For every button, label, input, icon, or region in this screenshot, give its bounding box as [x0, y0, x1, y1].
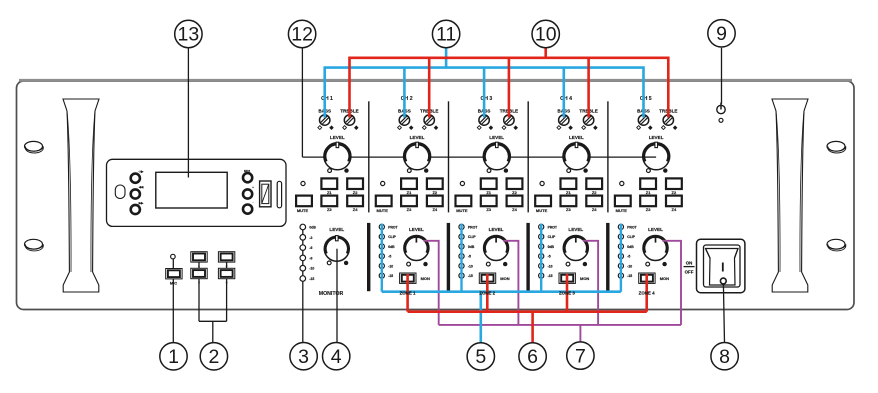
svg-text:3: 3 — [298, 346, 309, 368]
svg-text:2: 2 — [208, 346, 219, 368]
svg-text:LEVEL: LEVEL — [329, 227, 344, 232]
svg-text:-15: -15 — [309, 277, 314, 281]
svg-text:11: 11 — [436, 24, 456, 46]
svg-text:CH 2: CH 2 — [401, 96, 413, 102]
svg-text:5: 5 — [475, 346, 486, 368]
svg-text:10: 10 — [535, 24, 557, 46]
svg-text:MIC: MIC — [170, 281, 177, 286]
svg-text:7: 7 — [575, 345, 586, 367]
svg-text:-: - — [253, 200, 254, 204]
svg-text:ON: ON — [686, 260, 693, 265]
svg-text:4: 4 — [331, 346, 342, 368]
svg-text:1: 1 — [168, 346, 179, 368]
svg-text:OFF: OFF — [685, 270, 694, 275]
svg-text:9: 9 — [716, 23, 727, 45]
svg-text:○/▶: ○/▶ — [139, 170, 145, 174]
svg-text:CH 3: CH 3 — [480, 96, 492, 102]
svg-text:ZONE 2: ZONE 2 — [479, 291, 495, 296]
svg-text:CH 4: CH 4 — [560, 96, 572, 102]
svg-text:CH 1: CH 1 — [321, 96, 333, 102]
svg-text:-6: -6 — [309, 246, 312, 250]
svg-text:-9: -9 — [309, 256, 312, 260]
svg-text:-3: -3 — [309, 236, 312, 240]
svg-text:0dB: 0dB — [309, 226, 316, 230]
svg-text:◀◀: ◀◀ — [138, 185, 144, 189]
svg-text:-10: -10 — [309, 267, 314, 271]
svg-text:ZONE 1: ZONE 1 — [400, 291, 416, 296]
svg-text:6: 6 — [527, 346, 538, 368]
svg-text:ZONE 4: ZONE 4 — [639, 291, 655, 296]
svg-text:▶▶: ▶▶ — [138, 201, 144, 205]
svg-text:CH 5: CH 5 — [640, 96, 652, 102]
svg-text:MONITOR: MONITOR — [319, 291, 344, 297]
svg-text:ZONE 3: ZONE 3 — [559, 291, 575, 296]
svg-text:+: + — [252, 185, 254, 189]
svg-text:MP3: MP3 — [244, 169, 251, 173]
svg-text:13: 13 — [178, 24, 200, 46]
svg-text:12: 12 — [291, 24, 313, 46]
svg-text:8: 8 — [719, 346, 730, 368]
